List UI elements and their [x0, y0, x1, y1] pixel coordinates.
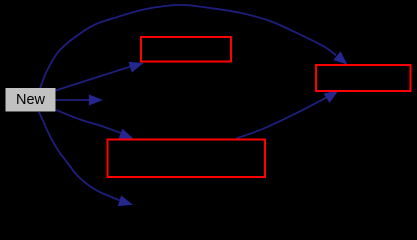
wire edge New->top node	[56, 62, 144, 91]
node top red box	[141, 37, 231, 62]
wire edge bottom node->right node	[237, 91, 339, 139]
wire edge New->bottom node	[56, 110, 134, 139]
wire edge New->hidden bottom-left node (arc)	[39, 112, 133, 206]
wire edge New->hidden middle node	[56, 94, 103, 105]
wire edge New->right node (top arc)	[40, 5, 348, 89]
svg-text:New: New	[16, 92, 46, 108]
node right red box	[316, 65, 411, 91]
node New (current node, grey)	[6, 88, 56, 112]
node bottom red box	[108, 140, 266, 178]
